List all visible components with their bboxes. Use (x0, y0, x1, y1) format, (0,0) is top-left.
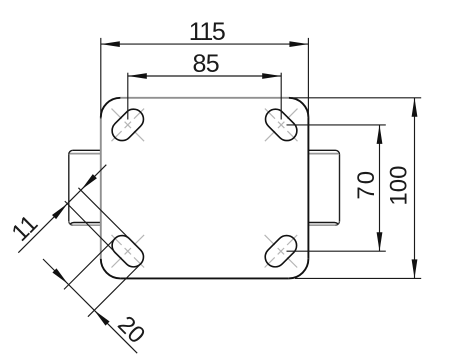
plate bottom edge (120, 277, 288, 279)
dimension line 100 (414, 98, 416, 279)
svg-text:85: 85 (192, 50, 219, 78)
dimension 20 (43, 238, 141, 353)
arrowhead 70 bottom (377, 232, 383, 251)
svg-text:100: 100 (385, 166, 412, 206)
dimension line 85 (128, 75, 281, 77)
slot hole TR (261, 105, 301, 145)
extension line 20 upper (from slot end) (64, 238, 115, 289)
arrowhead 20 upper (52, 268, 68, 284)
plate right edge (307, 117, 309, 258)
arrowhead 85 right (262, 73, 281, 79)
dimension 70 (287, 125, 386, 251)
dimension 85 (128, 73, 281, 120)
arrowhead 115 left (101, 41, 120, 47)
arrowhead 70 top (377, 125, 383, 144)
arrowhead 100 top (412, 98, 418, 117)
extension line 20 lower (from slot end) (88, 264, 141, 317)
plate left edge (100, 117, 102, 258)
plate body fill (101, 98, 309, 279)
wheel left silhouette (69, 150, 101, 225)
slot hole BR (261, 231, 301, 271)
centermark slot BR (265, 235, 298, 268)
extension line 115 left (100, 38, 102, 119)
extension line 115 right (307, 38, 309, 119)
extension line 11 lower (slot edge B extended) (65, 201, 127, 264)
svg-text:115: 115 (189, 18, 225, 46)
extension line 11 upper (slot edge A extended) (78, 188, 140, 250)
dimension 11 (18, 165, 140, 264)
plate corner arc top-left (101, 98, 121, 118)
plate corner arc bottom-left (101, 259, 121, 279)
dimension 100 (290, 98, 421, 279)
arrowhead 11 lower (52, 204, 68, 220)
extension line 85 left (127, 73, 129, 120)
dimension line 20 (43, 259, 137, 353)
extension line 70 top (287, 124, 386, 126)
dimension line 70 (379, 125, 381, 251)
slot hole BL (108, 231, 148, 271)
plate corner arc bottom-right (289, 259, 309, 279)
extension line 100 top (290, 97, 421, 99)
svg-text:70: 70 (353, 169, 380, 200)
plate top edge (120, 97, 288, 99)
dimension line 115 (101, 43, 309, 45)
extension line 70 bottom (287, 250, 386, 252)
extension line 85 right (280, 73, 282, 120)
arrowhead 115 right (289, 41, 308, 47)
dimension 115 (101, 38, 309, 119)
centermark slot BL (112, 235, 145, 268)
arrowhead 20 lower (94, 310, 110, 326)
slot hole TL (108, 105, 148, 145)
arrowhead 85 left (128, 73, 147, 79)
arrowhead 11 upper (81, 174, 97, 190)
arrowhead 100 bottom (412, 259, 418, 278)
dimension line 11 (18, 165, 106, 253)
centermark slot TL (112, 109, 145, 142)
wheel right silhouette (308, 150, 339, 225)
plate corner arc top-right (289, 98, 309, 118)
centermark slot TR (265, 109, 298, 142)
extension line 100 bottom (295, 277, 421, 279)
